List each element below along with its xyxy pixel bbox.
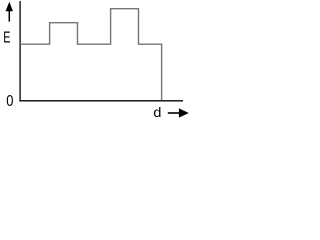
y-axis [19,1,21,101]
up arrow (E axis direction) [6,2,13,22]
x-axis [19,100,183,102]
right arrow (d axis direction) [168,108,189,117]
svg-text:d: d [153,105,161,121]
svg-text:0: 0 [6,93,13,110]
svg-text:E: E [3,28,10,46]
waveform: step potential curve [20,9,162,101]
